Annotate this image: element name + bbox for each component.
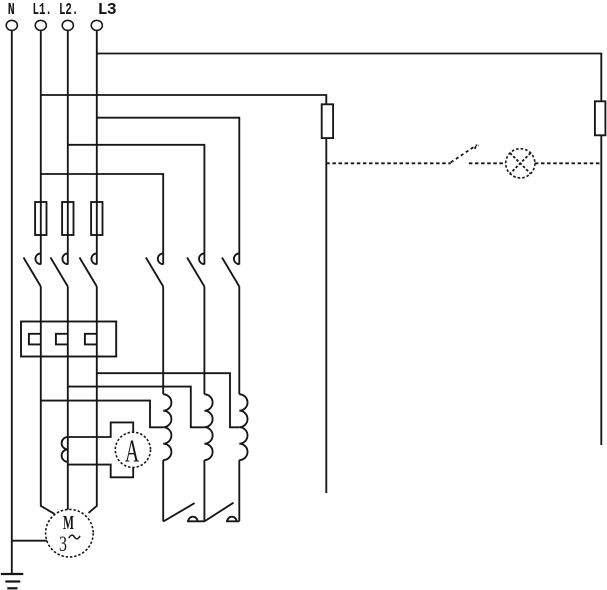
wire N vertical [11,30,13,574]
ground [1,574,24,588]
lamp HL cross stroke 2 [510,153,531,174]
contact KM2-2 hook [199,253,204,264]
autotransformer coil T3 [239,394,247,460]
contact KM3-1 hook [188,517,197,522]
terminal L1 [35,20,46,30]
svg-text:N: N [8,0,15,19]
wire L1 upper [40,30,42,264]
contact KM2-3 hook [234,253,239,264]
contact KM2-2 blade [187,258,204,287]
FR heater element 1 [29,334,41,345]
thermal overload relay FR box [21,322,116,357]
fuse FU5 (right) [595,101,606,135]
fuse FU4 (control) [322,104,333,138]
tap wire T2 to L2 line [68,387,205,428]
contact KM1-2 hook [62,253,67,264]
wire star point 1 [187,520,204,522]
tap wire T1 to L1 line [41,401,163,428]
wire KM2-2 to coil T2 [203,287,205,395]
wire TA to ammeter bottom [68,465,133,478]
wire L1 lower to motor [41,287,55,514]
wire below coil T1 [162,460,164,521]
dashed switch hook [475,145,478,148]
wire L3 branch to KM2-3 [97,118,240,265]
wire L3 to right fuse [97,54,602,102]
fuse FU1 (L1) [35,202,46,235]
FR heater element 2 [56,334,68,345]
dashed control wire middle segment [469,162,506,164]
wire below coil T3 [238,460,240,521]
wire KM2-1 to coil T1 [162,287,164,395]
FR heater element 3 [85,334,97,345]
svg-text:L3: L3 [98,0,117,19]
contact KM3-2 hook [227,517,236,522]
wire L2 branch to KM2-2 [68,145,205,265]
contact KM1-1 blade [24,258,41,287]
wire L3 lower to motor [89,287,97,513]
wire L1 to control fuse [41,95,327,104]
contact KM2-1 hook [158,253,163,264]
contact KM1-3 blade [80,258,97,287]
motor M circle [46,509,94,557]
terminal L2 [62,20,73,30]
dashed switch blade [451,145,477,162]
contact KM1-1 hook [35,253,40,264]
wire below control fuse [325,138,327,493]
contact KM3-2 blade [204,503,233,522]
contact KM2-3 blade [222,258,239,287]
wire below right fuse [600,135,602,445]
wire L2 upper [67,30,69,264]
wire L3 upper [96,30,98,264]
autotransformer coil T1 [163,394,171,460]
wire motor frame to N [12,540,47,542]
dashed control wire right segment [535,162,601,164]
contact KM1-2 blade [51,258,68,287]
lamp HL cross stroke 1 [510,153,531,174]
svg-text:A: A [125,432,139,468]
current transformer TA on L2 [62,437,68,462]
wire L1 branch to KM2-1 [41,174,163,265]
terminal L3 [91,20,102,30]
fuse FU3 (L3) [91,202,102,235]
contact KM3-1 blade [163,503,194,521]
contact KM1-3 hook [91,253,96,264]
terminal N [6,20,17,30]
tap wire T3 to L3 line [97,373,240,427]
motor label tilde [69,535,80,539]
wire L2 lower to motor [67,287,69,510]
dashed control wire left segment [326,162,451,164]
svg-text:3: 3 [59,531,67,556]
lamp HL circle [506,149,535,178]
contact KM2-1 blade [146,258,163,287]
wire KM2-3 to coil T3 [238,287,240,395]
wire TA to ammeter top [68,422,133,437]
fuse FU2 (L2) [62,202,73,235]
autotransformer coil T2 [204,394,212,460]
ammeter PA [115,432,150,467]
svg-text:L1.: L1. [33,0,52,19]
wire star point 2 [226,520,239,522]
wire below coil T2 [203,460,205,521]
svg-text:L2.: L2. [59,0,78,19]
